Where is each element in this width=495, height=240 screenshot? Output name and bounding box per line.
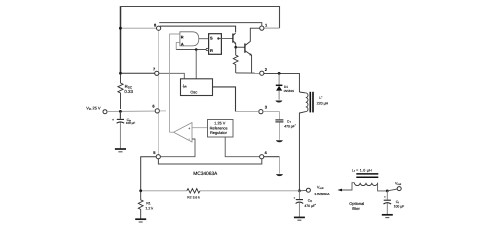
wire oscillator to latch R (with bubble feed) <box>176 49 206 51</box>
svg-text:+: + <box>293 196 295 200</box>
ground (Co) <box>294 217 305 220</box>
svg-text:220 µH: 220 µH <box>317 101 329 105</box>
svg-text:Vout: Vout <box>317 186 324 191</box>
pin 8 <box>154 22 161 30</box>
label CT 470pF <box>284 120 296 129</box>
wire comparator - to pin 5 <box>160 139 195 157</box>
capacitor Co 470uF <box>293 191 303 204</box>
svg-text:S: S <box>210 36 213 41</box>
svg-text:5.0V/500mA: 5.0V/500mA <box>315 192 330 196</box>
pin 7 <box>153 67 159 76</box>
ground (CT) <box>276 140 283 142</box>
wire pin1 to top rail <box>264 27 280 29</box>
IC outline MC34063A block <box>158 30 261 164</box>
svg-text:+: + <box>188 126 190 130</box>
svg-text:470 pF*: 470 pF* <box>284 124 296 128</box>
svg-text:1.2 k: 1.2 k <box>145 207 153 211</box>
svg-text:CO: CO <box>308 199 312 204</box>
terminal Vout filtered <box>395 181 401 190</box>
svg-text:R: R <box>210 48 213 53</box>
svg-text:R1: R1 <box>146 201 151 205</box>
label Cf 100uF <box>394 200 405 209</box>
wire oscillator line to gate input 2 <box>176 43 180 50</box>
pin 1 <box>260 22 268 30</box>
svg-text:Vout: Vout <box>395 181 401 186</box>
oscillator box U4 <box>181 79 213 96</box>
svg-text:Vin 25 V: Vin 25 V <box>86 105 101 111</box>
wire Cf to ground <box>386 203 388 214</box>
svg-text:MC34063A: MC34063A <box>193 171 218 177</box>
svg-text:100 µF: 100 µF <box>126 121 136 125</box>
svg-text:Lf = 1.0 µH: Lf = 1.0 µH <box>352 169 372 174</box>
wire reference box to pin 4 <box>225 137 259 157</box>
wire pin 3 to CT <box>263 112 279 120</box>
svg-text:Osc: Osc <box>190 89 197 94</box>
label Vout 5.0V/500mA <box>315 186 330 197</box>
transistor Q1 (switch) <box>245 28 260 72</box>
wire gate output to latch S <box>199 38 209 40</box>
wire node A to pin 7 <box>121 72 155 74</box>
svg-text:R: R <box>181 35 184 40</box>
svg-text:470 µF*: 470 µF* <box>304 204 316 208</box>
inductor Lf (optional filter) <box>354 174 378 186</box>
wire Vin to pin 6 <box>107 110 155 112</box>
node Vin junction <box>119 110 122 113</box>
svg-text:R2 3.6 k: R2 3.6 k <box>187 196 200 200</box>
wire top rail from Rsc node to pin 1 <box>121 7 280 74</box>
resistor R2 3.6k <box>187 189 200 193</box>
node A junction (Rsc top / Ipk) <box>119 72 122 75</box>
wire latch Q to Q2 base <box>218 38 233 40</box>
pin 3 <box>259 104 268 113</box>
capacitor Cf 100uF <box>384 191 392 204</box>
wire comparator output up to gate input 1 <box>169 34 180 132</box>
node rail junction at pin8 level <box>119 27 122 30</box>
svg-text:0.33: 0.33 <box>124 89 133 94</box>
label R2 3.6k <box>187 196 200 200</box>
label Lf 1.0 uH <box>352 169 372 174</box>
svg-text:100 µF: 100 µF <box>394 205 405 209</box>
svg-text:+: + <box>384 195 386 199</box>
ground (Cf) <box>382 215 393 218</box>
svg-text:1N5819: 1N5819 <box>283 89 294 93</box>
wire Co to ground <box>298 203 300 217</box>
ground (R1) <box>135 219 146 222</box>
svg-text:filter: filter <box>352 206 360 211</box>
resistor R (Q2 emitter to bus) <box>233 47 238 73</box>
ground (Cin) <box>115 149 126 152</box>
wire Vin node down to Cin <box>119 111 121 118</box>
label Rsc 0.33 <box>124 84 133 94</box>
label Cin 100uF <box>126 118 136 125</box>
comparator U5 <box>174 123 192 143</box>
node switch junction <box>278 72 281 75</box>
svg-text:A: A <box>181 42 184 47</box>
label Vin 25 V <box>86 105 101 111</box>
capacitor Cin (polarized) <box>112 118 124 123</box>
wire junction down to oscillator box <box>195 50 197 79</box>
terminal Vout <box>299 188 310 192</box>
wire pin 2 to switch node <box>264 73 300 92</box>
reference regulator box U6 <box>208 120 234 138</box>
node divider junction <box>139 189 142 192</box>
label MC34063A <box>193 171 218 177</box>
node oscillator junction <box>195 48 198 51</box>
wire filter node to terminal <box>387 189 397 191</box>
wire Q2 emitter to Q1 base <box>236 46 245 48</box>
wire emitter bus to pin 2 <box>236 72 260 74</box>
inductor L 220uH <box>299 92 313 191</box>
node Vout junction <box>298 189 301 192</box>
wire comparator + to reference box <box>192 127 208 129</box>
wire CT to ground <box>278 122 280 139</box>
wire feedback line (Vout to divider) <box>141 190 300 192</box>
svg-text:+: + <box>112 118 114 122</box>
wire pin 4 to ground <box>264 157 280 174</box>
label D1 1N5819 <box>283 85 294 93</box>
wire pin 6 stub <box>159 110 166 112</box>
transistor Q2 (driver) <box>233 33 236 47</box>
wire pin8 to pin1 (jumper / top edge) <box>159 23 262 26</box>
wire pin 7 internal to oscillator <box>159 73 184 79</box>
pin 4 <box>260 150 268 159</box>
resistor Rsc <box>118 74 123 109</box>
wire left rail to pin 8 <box>120 27 157 29</box>
svg-text:Regulator: Regulator <box>210 130 228 135</box>
pin 6 <box>152 104 159 113</box>
capacitor CT <box>275 120 283 122</box>
latch U3 <box>206 34 221 55</box>
label L 220uH <box>317 96 329 105</box>
wire comparator output <box>169 131 173 133</box>
wire Cin to ground <box>119 123 121 149</box>
ground (pin 4) <box>276 174 283 176</box>
wire filter coil to output node <box>378 183 388 191</box>
label R1 1.2k <box>145 201 153 210</box>
terminal Vin <box>103 110 107 114</box>
pin 5 <box>153 150 160 159</box>
resistor R1 1.2k <box>138 191 143 219</box>
diode D1 1N5819 <box>276 73 283 99</box>
label Co 470uF <box>304 199 316 208</box>
wire arrow to filter <box>342 183 354 190</box>
AND gate U2 <box>180 32 199 47</box>
pin 2 <box>260 67 268 75</box>
ground (D1) <box>275 101 282 103</box>
node filter junction <box>386 190 389 193</box>
label Optional filter <box>349 201 364 211</box>
node Q2 emitter junction <box>234 46 237 49</box>
wire oscillator to pin 3 (CT) <box>213 87 259 112</box>
arrow to optional filter <box>337 189 342 192</box>
wire pin 8 internal bus to Q2 collector <box>160 26 236 32</box>
wire pin5 to divider node <box>141 157 157 191</box>
svg-text:Ipk: Ipk <box>183 84 188 89</box>
